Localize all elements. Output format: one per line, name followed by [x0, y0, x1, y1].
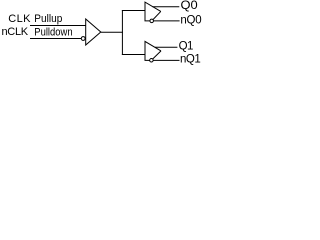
- U2 diagonal from bubble to apex: [153, 11, 161, 19]
- wire nQ0: [154, 20, 180, 22]
- wire U1 output: [101, 31, 123, 33]
- wire Q1: [155, 46, 178, 48]
- inversion bubble on U3 nQ1 output: [150, 59, 154, 63]
- svg-text:Pullup: Pullup: [34, 13, 62, 25]
- U3 diagonal from bubble to apex: [153, 51, 161, 59]
- svg-text:Q0: Q0: [181, 0, 198, 12]
- svg-text:CLK: CLK: [8, 13, 31, 25]
- svg-text:nCLK: nCLK: [2, 26, 29, 38]
- svg-text:Q1: Q1: [179, 41, 194, 53]
- svg-text:nQ0: nQ0: [180, 14, 201, 26]
- wire to buffer U2: [122, 10, 146, 12]
- wire vertical bus: [121, 10, 123, 55]
- wire Q0: [153, 6, 180, 8]
- buffer U1: [86, 19, 101, 45]
- wire nCLK to input bubble: [30, 38, 81, 40]
- inversion bubble on U1 nCLK input: [81, 37, 85, 41]
- buffer U2: [145, 2, 161, 21]
- inversion bubble on U2 nQ0 output: [150, 19, 154, 23]
- wire to buffer U3: [122, 54, 146, 56]
- svg-text:Pulldown: Pulldown: [34, 27, 72, 39]
- wire CLK to buffer U1: [30, 25, 86, 27]
- svg-text:nQ1: nQ1: [180, 53, 201, 65]
- buffer U3: [145, 41, 161, 60]
- wire nQ1: [153, 59, 179, 61]
